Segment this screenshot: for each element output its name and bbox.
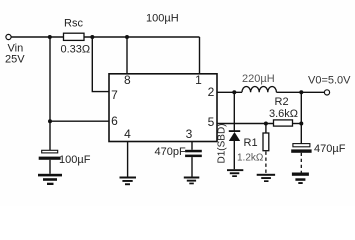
svg-text:7: 7 [111,88,118,102]
svg-text:V0=5.0V: V0=5.0V [308,75,351,87]
svg-text:25V: 25V [5,54,25,66]
pin 1 [195,73,202,87]
wire main top rail [11,36,199,38]
pin 2 [208,85,215,99]
node junction diode tap [232,90,236,94]
ground (under 470uF) [292,173,309,185]
node junction output [299,90,303,94]
pin 4 [124,127,131,141]
svg-text:1.2kΩ: 1.2kΩ [237,153,264,164]
label V0=5.0V [308,75,351,87]
ground (under R1) [257,174,275,182]
output terminal V0 [324,90,329,95]
label 0.33ohm [61,44,91,56]
svg-text:470µF: 470µF [314,143,346,155]
wire pin 8 [126,37,128,74]
resistor R1 [263,124,269,174]
svg-text:3.6kΩ: 3.6kΩ [269,108,298,120]
node junction Rsc right / pin7 [90,35,94,39]
label 1.2kohm [237,153,264,164]
node junction pin8 [125,35,129,39]
wire pin 1 [199,37,201,74]
label 220uH [242,73,275,85]
node junction Vin/C-in/Vcc [48,35,52,39]
wire pin 7 [92,37,109,92]
label D1(SBD) rotated [217,123,228,163]
svg-text:1: 1 [195,73,202,87]
input terminal Vin [6,34,11,39]
svg-text:470pF: 470pF [155,146,186,158]
svg-text:6: 6 [111,114,118,128]
wire pin 2 to inductor [217,91,242,93]
diode D1 SBD [229,92,240,169]
label Rsc [64,18,83,30]
svg-text:220µH: 220µH [242,73,275,85]
svg-text:R2: R2 [275,96,289,108]
wire pin 5 feedback [217,123,274,125]
wire pin 4 to ground [127,142,129,177]
resistor R2 [274,120,302,126]
ground (IC pin 4) [120,177,137,186]
capacitor Cout 470uF [291,144,311,173]
wire Vcc branch down [49,37,51,150]
ground (under 470pF) [184,177,200,185]
svg-text:2: 2 [208,85,215,99]
label R2 [275,96,289,108]
label 3.6kohm [269,108,298,120]
pin 3 [186,127,193,141]
svg-text:8: 8 [124,73,131,87]
svg-text:Rsc: Rsc [64,18,83,30]
wire output node down to Cout [300,92,302,143]
capacitor CT 470pF [185,150,202,177]
svg-text:100µH: 100µH [146,13,179,25]
label Vin [8,43,24,55]
wire pin 6 [50,120,109,122]
label 25V [5,54,25,66]
label 100uH [146,13,179,25]
capacitor C-in 100uF [39,150,61,174]
label 470uF [314,143,346,155]
node junction R2/Cout [299,122,303,126]
svg-text:3: 3 [186,127,193,141]
pin 8 [124,73,131,87]
node junction R1 tap [264,122,268,126]
label 470pF [155,146,186,158]
svg-text:D1(SBD): D1(SBD) [217,123,228,163]
svg-text:4: 4 [124,127,131,141]
resistor Rsc [64,33,85,40]
inductor L1 220uH [242,87,276,93]
label R1 [244,137,258,149]
pin 5 [208,115,215,129]
ground (under D1) [227,169,243,177]
op-amp U1 (MC34063 IC box) [109,74,217,142]
pin 7 [111,88,118,102]
svg-text:0.33Ω: 0.33Ω [61,44,91,56]
svg-text:100µF: 100µF [59,154,91,166]
node junction pin6 tap [48,119,52,123]
svg-text:5: 5 [208,115,215,129]
svg-text:R1: R1 [244,137,258,149]
label 100uF [59,154,91,166]
wire pin 3 to timing cap [191,142,193,150]
pin 6 [111,114,118,128]
wire inductor to output [276,91,324,93]
ground (under 100uF) [38,174,62,185]
